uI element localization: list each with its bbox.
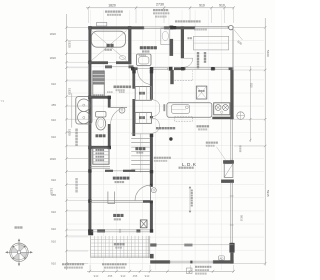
compass rose — [5, 239, 32, 266]
wall: hall-stair boundary — [105, 170, 113, 172]
window: right mid — [230, 119, 233, 160]
note: sliding window spec with box a — [187, 268, 193, 274]
diagonal leader 600 — [234, 29, 243, 40]
stove counter — [214, 103, 230, 115]
stair bottom edge — [131, 170, 150, 172]
corner blobs left wall — [88, 61, 91, 64]
svg-text:910: 910 — [51, 178, 56, 182]
stove burners — [215, 105, 221, 111]
kitchen island counter — [167, 103, 212, 117]
svg-text:1820: 1820 — [67, 88, 71, 95]
svg-text:5915: 5915 — [266, 190, 270, 197]
label: porch tile — [114, 243, 116, 245]
svg-text:910: 910 — [51, 118, 56, 122]
fan symbol outside — [237, 112, 245, 120]
wall: left exterior — [88, 26, 91, 234]
door knob circles — [151, 188, 156, 193]
svg-text:Y1: Y1 — [1, 99, 5, 103]
wall: LDK south exterior — [150, 260, 170, 263]
wall: closet/stair right V4 — [150, 70, 153, 100]
porch corner blob — [150, 254, 154, 259]
closet 2 door arcs — [153, 118, 159, 133]
svg-text:L.D.K: L.D.K — [182, 162, 197, 167]
toilet door arc — [111, 108, 127, 124]
bath diagonals — [92, 31, 127, 61]
svg-text:1820: 1820 — [108, 3, 116, 7]
label: fridge space vertical — [197, 52, 199, 54]
counter bar 2 — [221, 180, 234, 183]
svg-text:a: a — [188, 269, 190, 273]
wall: toilet bottom — [88, 146, 110, 149]
svg-text:455: 455 — [51, 103, 56, 107]
interior vertical dimension — [189, 187, 191, 213]
genkan X-box — [140, 220, 147, 228]
dashed upper-cabinet line — [175, 80, 193, 82]
right dimension line — [264, 18, 266, 266]
wall: PS bar washroom right — [170, 39, 174, 56]
note: porch tile — [62, 263, 64, 265]
wall: toilet top — [88, 96, 110, 99]
entrance hall door arc — [135, 185, 150, 200]
note: counter at right wall — [206, 142, 208, 144]
wall: kitchen-pantry nub — [170, 70, 173, 84]
vanity washroom — [161, 28, 170, 45]
svg-text:910: 910 — [51, 240, 56, 244]
closet 1 door arcs — [153, 100, 160, 117]
label: washroom — [140, 46, 143, 49]
dishwasher dashed — [175, 117, 193, 122]
column dot — [169, 137, 172, 140]
svg-text:1820: 1820 — [49, 188, 53, 195]
wall: toilet right — [108, 96, 111, 108]
note near stairs (wood deck) — [154, 157, 156, 159]
svg-text:910: 910 — [94, 274, 99, 278]
vertical dim text right of wall — [239, 145, 241, 147]
left dimension line — [65, 14, 67, 270]
cabinet dotted base — [93, 94, 95, 96]
bathtub — [92, 31, 126, 47]
bath drain oval — [119, 56, 125, 60]
note: doma concrete — [102, 263, 104, 265]
svg-text:2730: 2730 — [156, 3, 164, 7]
svg-text:910: 910 — [199, 3, 205, 7]
washing machine — [137, 54, 152, 66]
eco-cute unit — [76, 97, 92, 124]
thin line across LDK south — [153, 244, 234, 246]
porch border — [91, 236, 150, 258]
module grid — [67, 10, 265, 270]
closet 1 — [135, 87, 151, 101]
bath small window above wall — [97, 22, 107, 26]
label: entrance hall — [113, 177, 116, 180]
small basin circle hallway — [119, 107, 125, 113]
AD box — [219, 256, 225, 260]
svg-text:1820: 1820 — [50, 157, 57, 161]
svg-text:1820: 1820 — [50, 56, 57, 60]
corner circle symbol top-right — [229, 25, 233, 29]
kitchen sink — [172, 105, 190, 114]
toilet fixture — [96, 112, 106, 117]
wall: entrance south w/ door — [97, 229, 105, 232]
annotation: balcony above — [175, 20, 177, 22]
svg-text:455: 455 — [108, 274, 113, 278]
pantry counter — [194, 36, 229, 50]
window: top pantry long — [195, 26, 228, 29]
shoe closet — [93, 148, 109, 164]
window: top wash room — [144, 26, 164, 29]
svg-text:910: 910 — [51, 227, 56, 231]
label: eco-cute vertical — [75, 129, 78, 132]
bottom dimension line — [87, 270, 234, 272]
closet 2 — [135, 112, 151, 123]
counter bar 1 — [223, 160, 234, 164]
svg-text:455: 455 — [133, 274, 138, 278]
annotation: window note mid — [153, 9, 155, 11]
svg-text:910: 910 — [51, 135, 56, 139]
pantry door arc — [184, 58, 193, 67]
wall: bath bottom — [88, 61, 108, 64]
label: washroom shower caption — [114, 86, 117, 89]
svg-text:5460: 5460 — [266, 50, 270, 57]
label: closet1 — [139, 92, 142, 95]
tiny window caption — [194, 29, 196, 31]
wall: left bottom corner — [88, 229, 93, 235]
dark bar under stove — [212, 117, 233, 120]
stair center line — [140, 134, 142, 173]
step stub walls — [108, 192, 115, 204]
section mark — [188, 37, 190, 39]
window: right lower long — [230, 183, 233, 243]
top dimension line — [86, 7, 234, 9]
eco-cute platform edge — [71, 93, 73, 127]
linen cabinet — [93, 71, 105, 84]
label: bath — [107, 44, 110, 47]
svg-text:1820: 1820 — [67, 129, 71, 136]
svg-text:910: 910 — [51, 82, 56, 86]
svg-text:910: 910 — [145, 274, 150, 278]
wall: mid horizontal — [131, 67, 137, 70]
label: toilet — [96, 134, 99, 137]
wall: pantry left — [181, 26, 184, 58]
wall: right bottom corner — [229, 243, 234, 253]
wall: corridor top w/ door gap — [105, 65, 112, 68]
staircase treads — [131, 134, 150, 169]
wall: top exterior — [88, 26, 144, 29]
svg-text:1820: 1820 — [67, 41, 71, 48]
wall: right exterior upper — [232, 30, 234, 71]
dark junction top washroom/pantry — [170, 26, 174, 30]
annotation: window note left — [105, 11, 107, 13]
compass label — [15, 226, 17, 228]
svg-text:910: 910 — [219, 3, 225, 7]
label: closet2 — [139, 116, 142, 119]
svg-text:910: 910 — [51, 210, 56, 214]
fridge — [196, 86, 207, 99]
svg-text:910: 910 — [51, 262, 56, 266]
svg-text:1820: 1820 — [50, 32, 57, 36]
tiny dims above toilet — [107, 91, 109, 93]
washroom door arc — [138, 70, 152, 84]
porch tile grid — [91, 236, 150, 258]
label: stair room — [135, 147, 138, 150]
svg-text:AD: AD — [219, 256, 223, 260]
wall: genkan top y201 — [90, 201, 150, 203]
wall: bath/washroom divider — [128, 26, 131, 64]
svg-text:5915: 5915 — [240, 215, 244, 222]
niche with diagonal — [224, 164, 233, 178]
wall: corridor/closet left V3 — [132, 70, 135, 87]
label: genkan — [113, 214, 116, 217]
wall below shoe closet — [90, 166, 110, 168]
secondary right dim chain — [249, 66, 251, 142]
counter end panel — [163, 104, 165, 111]
kitchen caption row — [156, 127, 158, 129]
svg-text:910: 910 — [121, 274, 126, 278]
label: cupboard vertical — [204, 52, 206, 54]
